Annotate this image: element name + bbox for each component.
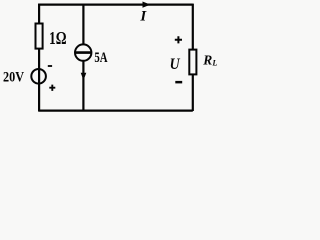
minus sign below U (175, 81, 182, 84)
svg-text:20V: 20V (3, 70, 24, 86)
wire left branch lower (38, 49, 40, 111)
wire middle branch lower (82, 61, 84, 111)
current direction arrow down (81, 73, 87, 81)
svg-text:I: I (139, 8, 147, 24)
wire bottom node (38, 109, 193, 111)
wire middle branch upper (82, 4, 84, 45)
resistor R1 1-ohm (36, 24, 43, 49)
polarity plus of source (49, 85, 55, 91)
wire top node (38, 3, 193, 5)
plus sign above U (175, 36, 182, 43)
svg-text:1Ω: 1Ω (49, 28, 67, 48)
resistor RL load (189, 50, 196, 75)
svg-text:5A: 5A (94, 50, 107, 66)
current source 5A (75, 44, 91, 60)
wire right branch upper (192, 4, 194, 51)
wire left branch upper (38, 4, 40, 25)
wire right branch lower (192, 74, 194, 111)
svg-text:U: U (170, 56, 181, 73)
polarity minus of source (48, 65, 52, 67)
voltage source Us 20V (31, 69, 46, 84)
current arrow I on top wire (143, 2, 151, 8)
current source bar (75, 51, 91, 54)
